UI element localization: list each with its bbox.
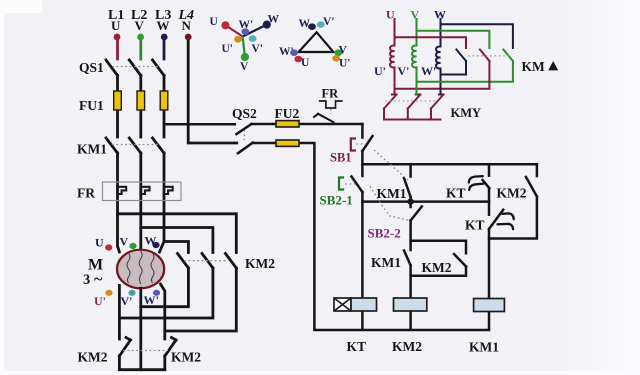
svg-text:U: U — [210, 16, 219, 28]
svg-text:FU2: FU2 — [275, 106, 300, 121]
svg-text:KM2: KM2 — [422, 260, 452, 275]
svg-text:KM2: KM2 — [497, 186, 527, 201]
svg-text:3: 3 — [83, 272, 90, 288]
svg-text:FR: FR — [77, 186, 95, 201]
svg-text:SB2-2: SB2-2 — [368, 226, 401, 241]
svg-text:U: U — [386, 8, 395, 22]
svg-text:QS2: QS2 — [232, 106, 257, 121]
svg-text:KM1: KM1 — [371, 255, 401, 270]
svg-text:W: W — [434, 8, 446, 22]
svg-text:KT: KT — [465, 218, 485, 233]
svg-text:V: V — [339, 45, 348, 57]
svg-text:KM2: KM2 — [78, 350, 108, 365]
svg-text:W: W — [268, 14, 280, 26]
svg-text:W: W — [157, 18, 170, 33]
svg-text:FU1: FU1 — [79, 98, 104, 113]
svg-text:U: U — [111, 18, 121, 33]
svg-text:V': V' — [398, 64, 410, 78]
svg-text:W': W' — [421, 64, 436, 78]
svg-text:U': U' — [222, 43, 234, 55]
svg-text:KM1: KM1 — [77, 142, 107, 157]
svg-text:KM: KM — [451, 106, 473, 120]
svg-text:KM2: KM2 — [392, 339, 422, 354]
svg-text:U': U' — [374, 64, 386, 78]
svg-text:V': V' — [323, 16, 335, 28]
svg-text:KM2: KM2 — [171, 350, 201, 365]
svg-text:U': U' — [94, 294, 106, 308]
svg-text:SB1: SB1 — [330, 151, 352, 165]
svg-text:W: W — [299, 18, 311, 30]
svg-text:W: W — [145, 234, 157, 248]
svg-text:KM1: KM1 — [469, 340, 499, 355]
svg-text:Y: Y — [472, 106, 481, 120]
svg-text:V': V' — [121, 294, 133, 308]
svg-text:U': U' — [339, 58, 351, 70]
svg-text:V: V — [240, 61, 249, 73]
svg-text:QS1: QS1 — [79, 60, 104, 75]
svg-text:U: U — [301, 57, 310, 69]
svg-text:W': W' — [144, 293, 159, 307]
svg-text:~: ~ — [94, 271, 103, 288]
svg-text:KM: KM — [522, 59, 546, 74]
svg-text:KM2: KM2 — [245, 256, 275, 271]
svg-text:W': W' — [239, 19, 254, 31]
svg-text:SB2-1: SB2-1 — [320, 193, 353, 208]
svg-text:V': V' — [252, 43, 264, 55]
svg-text:W': W' — [279, 46, 294, 58]
svg-text:U: U — [95, 236, 104, 250]
svg-text:V: V — [135, 18, 145, 33]
svg-text:V: V — [411, 8, 420, 22]
svg-text:N: N — [182, 18, 192, 33]
svg-text:V: V — [120, 235, 129, 249]
svg-text:KT: KT — [446, 186, 466, 201]
svg-text:KM1: KM1 — [377, 186, 407, 201]
svg-text:FR: FR — [322, 87, 340, 101]
svg-text:KT: KT — [347, 339, 367, 354]
